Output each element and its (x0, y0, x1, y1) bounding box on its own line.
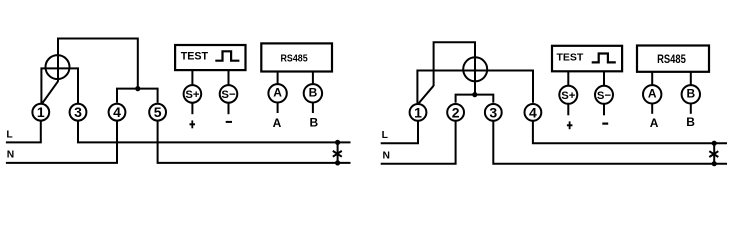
svg-text:B: B (309, 116, 318, 130)
svg-text:L: L (382, 130, 388, 141)
terminal B (304, 84, 322, 102)
wire: L line to terminal 1R (381, 121, 418, 143)
wire: load link vertical R (713, 143, 715, 164)
label + R (567, 121, 573, 129)
wire: diagonal link coil P1 bottom to terminal 1 (43, 81, 59, 103)
svg-text:S+: S+ (185, 89, 200, 101)
svg-text:A: A (648, 87, 657, 101)
svg-text:1: 1 (414, 104, 422, 120)
wire: chord terminal 1R to terminal 4R (through coil P2) (417, 71, 533, 104)
junction J1 (135, 86, 140, 91)
wire: stub below S- R (603, 104, 605, 116)
terminal 3R (485, 104, 502, 121)
junction J2 (472, 92, 477, 97)
terminal 5 (149, 104, 166, 121)
wire: top feed run (from coil P1 up, across, down to node J1) (58, 39, 138, 88)
terminal S+ (184, 85, 202, 103)
wire: L line to terminal 1 (6, 121, 41, 143)
svg-text:TEST: TEST (181, 50, 209, 62)
coil P1 (circle with cross) (46, 55, 70, 79)
svg-text:3: 3 (489, 104, 497, 120)
terminal 2R (447, 104, 464, 121)
svg-text:4: 4 (113, 104, 121, 120)
label - R (602, 123, 608, 125)
RS485 box R (637, 46, 709, 72)
svg-text:TEST: TEST (556, 51, 583, 63)
terminal S+ R (559, 86, 577, 104)
svg-text:A: A (273, 116, 282, 130)
svg-text:5: 5 (154, 104, 162, 120)
svg-text:RS485: RS485 (657, 54, 686, 66)
svg-text:S−: S− (221, 89, 236, 101)
wire: N line to terminal 4 (6, 121, 117, 163)
terminal S- (220, 85, 238, 103)
TEST box R (552, 46, 622, 72)
wire: stub below A (277, 102, 279, 113)
wire: terminal 4R to load (upper) (533, 121, 727, 143)
svg-text:2: 2 (452, 104, 460, 120)
label - (226, 121, 232, 123)
wire: stub below A R (651, 103, 653, 114)
junction: load node upper (335, 140, 340, 145)
terminal B R (682, 85, 700, 103)
junction: load node lower (335, 160, 340, 165)
wire: stub below S+ (191, 102, 193, 114)
svg-text:S+: S+ (561, 90, 576, 102)
label + (190, 120, 196, 128)
wire: terminal 3 to load (upper) (78, 121, 351, 143)
svg-text:B: B (686, 115, 695, 129)
wire: TEST box to S+ (191, 70, 193, 85)
coil P2 (circle with cross) (463, 57, 487, 81)
svg-text:B: B (309, 86, 318, 100)
RS485 box (261, 43, 332, 71)
wire: RS485 box to A R (651, 72, 653, 85)
terminal 1R (410, 104, 427, 121)
svg-text:1: 1 (37, 104, 45, 120)
wire: stub below S- (228, 102, 230, 114)
pulse icon (215, 51, 239, 60)
wire: top feed run (left vertical, across, into coil P2) (434, 42, 475, 93)
wire: stub below B (312, 102, 314, 113)
terminal S- R (595, 86, 613, 104)
wire: RS485 box to B R (690, 72, 692, 85)
wire: RS485 box to B (312, 72, 314, 85)
svg-text:B: B (686, 87, 695, 101)
wire: TEST box to S- R (603, 71, 605, 86)
wire: bar joining terminals 2R and 3R (456, 95, 494, 103)
wire: link terminal 1 - terminal 3 (chord through coil) (41, 68, 78, 104)
wire: diagonal link to terminal 1R (419, 86, 434, 103)
svg-text:4: 4 (529, 104, 537, 120)
wire: TEST box to S- (228, 70, 230, 85)
load mark X R (709, 151, 718, 157)
terminal 1 (32, 104, 49, 121)
svg-text:RS485: RS485 (281, 53, 308, 65)
pulse icon R (592, 54, 616, 63)
svg-text:3: 3 (74, 104, 82, 120)
wire: terminal 3R to load (lower) (493, 121, 727, 164)
wire: load link vertical (337, 142, 339, 163)
terminal A (268, 84, 286, 102)
wire: stub below B R (690, 103, 692, 114)
TEST box (175, 45, 245, 70)
terminal 3 (70, 104, 87, 121)
svg-text:N: N (7, 150, 14, 161)
wire: TEST box to S+ R (567, 71, 569, 86)
wire: RS485 box to A (277, 72, 279, 85)
wire: bar joining terminals 4 and 5 (117, 89, 158, 103)
wire: stub below S+ R (567, 104, 569, 116)
load mark X (333, 151, 342, 157)
svg-text:S−: S− (597, 90, 612, 102)
terminal 4R (525, 104, 542, 121)
wire: terminal 5 to load (lower) (158, 121, 351, 163)
svg-text:N: N (383, 150, 390, 161)
terminal 4 (109, 104, 126, 121)
svg-text:L: L (6, 129, 12, 140)
terminal A R (643, 85, 661, 103)
wire: N line to terminal 2R (381, 121, 456, 164)
svg-text:A: A (650, 116, 659, 130)
junction: load node lower R (712, 161, 717, 166)
junction: load node upper R (712, 141, 717, 146)
svg-text:A: A (273, 86, 282, 100)
